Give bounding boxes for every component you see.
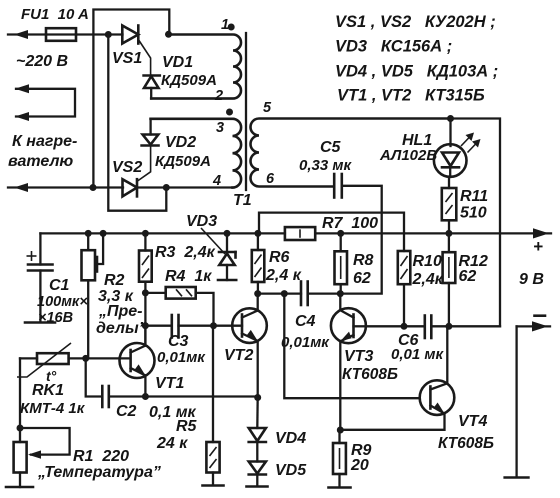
svg-text:R7 100: R7 100 <box>322 215 378 232</box>
junction dot C4 VT4-branch <box>281 290 288 297</box>
svg-text:R4 1к: R4 1к <box>165 268 212 285</box>
svg-text:T1: T1 <box>233 192 252 209</box>
junction dot R10 bottom <box>401 323 408 330</box>
wire C5 output down to VT3 base node <box>340 186 381 294</box>
svg-text:R11: R11 <box>460 188 488 205</box>
resistor R11 <box>442 177 457 233</box>
svg-text:C4: C4 <box>295 313 316 330</box>
svg-text:АЛ102В: АЛ102В <box>379 147 437 164</box>
junction dot R11 R12 rail <box>445 230 452 237</box>
svg-text:3: 3 <box>216 120 224 136</box>
junction dot R2 wiper top <box>100 230 107 237</box>
svg-text:0,01 мк: 0,01 мк <box>391 346 444 363</box>
label minus sign <box>535 314 546 317</box>
junction dot VD3 top <box>224 230 231 237</box>
svg-text:+: + <box>533 237 543 256</box>
wire pin 3 <box>151 118 233 120</box>
wire VT2 collector to VT4 base <box>284 294 420 399</box>
wire VT2 base <box>214 325 243 327</box>
transformer T1 core <box>245 33 247 190</box>
transformer T1 winding 3-4 <box>151 119 242 188</box>
ground bar minus line <box>505 476 529 479</box>
svg-text:VD4: VD4 <box>275 430 306 447</box>
diode VD5 <box>249 442 266 486</box>
LED HL1 <box>434 119 481 178</box>
svg-text:VD4 , VD5 КД103А ;: VD4 , VD5 КД103А ; <box>335 63 498 81</box>
svg-text:1: 1 <box>221 17 229 33</box>
pin 3 polarity dot <box>226 109 233 116</box>
capacitor C2 <box>102 386 145 407</box>
svg-text:КТ608Б: КТ608Б <box>342 366 398 383</box>
resistor R7 <box>285 227 315 240</box>
resistor R4 <box>145 287 213 326</box>
svg-text:62: 62 <box>459 268 477 285</box>
svg-text:2,4к: 2,4к <box>412 271 444 288</box>
junction dot R3-R4 node <box>142 289 149 296</box>
ground bar R5 <box>203 484 224 487</box>
svg-text:20: 20 <box>350 457 369 474</box>
transistor VT4 <box>340 326 454 430</box>
svg-text:КД509А: КД509А <box>161 72 217 89</box>
resistor R12 <box>443 233 456 326</box>
svg-text:К нагре-: К нагре- <box>12 133 77 150</box>
resistor R8 <box>335 233 348 293</box>
wire fuse to VS1 anode <box>76 33 123 35</box>
ground bar R1 <box>6 486 33 489</box>
svg-text:24 к: 24 к <box>156 435 188 452</box>
transistor VT1 <box>120 326 155 397</box>
capacitor C5 <box>334 174 342 198</box>
wire R3 bottom to VT1 collector column <box>144 293 146 346</box>
svg-text:RK1: RK1 <box>32 382 64 399</box>
terminal arrows to heater loop <box>15 84 75 121</box>
junction dot VT2 collector R6 <box>254 290 261 297</box>
svg-text:0,1 мк: 0,1 мк <box>149 404 197 421</box>
junction node A dot <box>105 31 112 38</box>
svg-text:R2: R2 <box>104 272 125 289</box>
svg-text:9 В: 9 В <box>519 271 544 288</box>
wire VT3 collector to C6 net <box>366 325 425 327</box>
wire R2 bottom column to C2 <box>86 358 103 396</box>
wire left bypass and top loop to VS1 cathode <box>93 10 169 188</box>
svg-text:C3: C3 <box>168 333 189 350</box>
junction dot R3 top <box>142 230 149 237</box>
svg-text:VT4: VT4 <box>458 413 487 430</box>
ground bar VD5 <box>247 485 268 488</box>
svg-text:510: 510 <box>460 205 487 222</box>
svg-text:VS1: VS1 <box>112 50 142 67</box>
svg-text:КМТ-4 1к: КМТ-4 1к <box>20 400 86 417</box>
svg-text:VD3: VD3 <box>186 213 217 230</box>
svg-text:FU1 10 A: FU1 10 A <box>21 6 89 23</box>
thyristor VS1 <box>122 26 150 77</box>
junction dot R12 bottom <box>445 323 452 330</box>
junction node B dot <box>165 31 172 38</box>
svg-text:C2: C2 <box>116 403 137 420</box>
wire pin5 rail right and down <box>451 119 501 327</box>
junction dot VT3 base node <box>337 290 344 297</box>
svg-text:100мк×: 100мк× <box>37 294 88 310</box>
svg-text:VT1 , VT2 КТ315Б: VT1 , VT2 КТ315Б <box>337 87 485 105</box>
svg-text:62: 62 <box>353 270 371 287</box>
junction dot R1 top <box>17 425 24 432</box>
svg-text:„Температура”: „Температура” <box>37 464 161 481</box>
junction dot VT2 emitter VD4 <box>254 394 261 401</box>
svg-text:R6: R6 <box>269 249 290 266</box>
svg-text:VS2: VS2 <box>112 159 142 176</box>
junction dot RK1 R2 VT1 base <box>82 355 89 362</box>
wire node A under-loop to VS2 cathode <box>108 35 166 211</box>
svg-text:VD1: VD1 <box>162 54 193 71</box>
callout line VD3 <box>201 228 225 254</box>
wire VD1 to pin 2 <box>151 97 234 99</box>
junction dot HL1 anode <box>447 115 454 122</box>
svg-text:VD2: VD2 <box>165 134 196 151</box>
transformer T1 winding 5-6 <box>251 119 451 187</box>
transistor VT3 <box>331 294 366 430</box>
junction dot VS2 cathode side <box>163 184 170 191</box>
svg-text:VT2: VT2 <box>224 347 253 364</box>
svg-text:0,33 мк: 0,33 мк <box>299 157 352 174</box>
wire main positive rail <box>40 228 551 238</box>
svg-text:VS1 , VS2 КУ202Н ;: VS1 , VS2 КУ202Н ; <box>335 13 496 31</box>
junction dot VT1 emitter C2 <box>142 393 149 400</box>
svg-text:КТ608Б: КТ608Б <box>438 435 494 452</box>
svg-text:C1: C1 <box>49 277 70 294</box>
svg-text:2: 2 <box>214 88 223 104</box>
svg-text:6: 6 <box>266 171 275 187</box>
resistor R10 <box>398 251 411 326</box>
svg-text:VD5: VD5 <box>275 462 307 479</box>
svg-text:КД509А: КД509А <box>155 153 211 170</box>
junction dot R6 top <box>254 230 261 237</box>
resistor R2 trimmer <box>82 233 104 358</box>
pin 1 polarity dot <box>228 24 235 31</box>
junction dot R2 top <box>85 230 92 237</box>
ground bar VD3 <box>218 279 236 282</box>
zener VD3 <box>219 233 236 280</box>
capacitor C4 <box>301 282 340 306</box>
svg-text:„Пре-: „Пре- <box>98 303 143 320</box>
wire bypass rail to R10 <box>259 213 404 251</box>
svg-text:вателю: вателю <box>8 153 73 170</box>
svg-text:×16В: ×16В <box>38 310 73 326</box>
thermistor RK1 <box>17 343 129 377</box>
capacitor C1 <box>27 233 53 322</box>
potentiometer R1 <box>14 428 70 487</box>
svg-text:R10: R10 <box>413 253 442 270</box>
wire mains neutral bottom <box>8 183 233 192</box>
svg-text:0,01мк: 0,01мк <box>157 349 206 366</box>
resistor R9 <box>333 430 346 487</box>
diode VD2 <box>142 119 159 146</box>
diode VD4 <box>249 398 266 443</box>
capacitor C6 <box>425 316 500 339</box>
svg-text:VT3: VT3 <box>344 348 373 365</box>
transformer T1 winding 1-2 <box>151 35 241 99</box>
svg-text:5: 5 <box>263 100 272 116</box>
wire collector node to C4 <box>258 292 301 294</box>
resistor R6 <box>252 233 264 293</box>
svg-text:4: 4 <box>212 173 221 189</box>
junction dot C3 left node <box>142 322 149 329</box>
capacitor C3 <box>145 315 213 338</box>
svg-text:R3 2,4к: R3 2,4к <box>155 244 216 261</box>
svg-text:R1 220: R1 220 <box>73 448 129 465</box>
svg-text:делы”: делы” <box>96 320 147 337</box>
svg-text:R8: R8 <box>353 252 374 269</box>
junction dot VT3 emitter R9 <box>337 427 344 434</box>
svg-text:C5: C5 <box>320 139 342 156</box>
terminal arrow mains live <box>8 30 46 39</box>
svg-text:VD3 КС156А ;: VD3 КС156А ; <box>335 38 452 56</box>
resistor R5 <box>206 326 219 485</box>
resistor R3 <box>139 233 152 293</box>
svg-text:VT1: VT1 <box>155 375 184 392</box>
transistor VT2 <box>232 294 267 398</box>
junction dot neutral at VS2 anode <box>90 184 97 191</box>
junction dot VT2 base node <box>210 322 217 329</box>
ground bar R9 <box>329 486 351 489</box>
ground bar C1 <box>25 321 55 324</box>
diode VD1 <box>144 76 160 99</box>
fuse FU1 <box>46 28 76 41</box>
wire emitter bus to VD4 <box>145 395 257 397</box>
junction dot R8 top <box>337 230 344 237</box>
wire R1 column <box>19 358 21 442</box>
thyristor VS2 <box>123 147 151 197</box>
svg-text:~220 В: ~220 В <box>16 53 68 70</box>
svg-text:0,01мк: 0,01мк <box>281 334 330 351</box>
svg-text:2,4 к: 2,4 к <box>265 267 302 284</box>
terminal arrow minus output <box>517 321 550 477</box>
